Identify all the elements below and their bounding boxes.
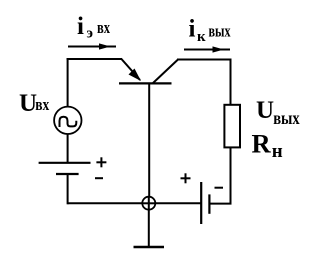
resistor Rн body bbox=[224, 105, 240, 148]
wire left vertical bbox=[67, 58, 69, 107]
svg-text:U: U bbox=[256, 97, 274, 124]
wire bottom horizontal right of node bbox=[155, 202, 201, 204]
label i_к вых bbox=[189, 15, 231, 45]
svg-text:вых: вых bbox=[273, 108, 300, 128]
svg-text:э: э bbox=[87, 26, 93, 42]
transistor VT1 collector lead bbox=[153, 60, 178, 84]
transistor VT1 emitter lead with arrow bbox=[121, 59, 141, 82]
label U вых bbox=[256, 97, 300, 128]
label i_э вх bbox=[77, 13, 110, 42]
wire node to ground bbox=[148, 210, 150, 247]
wire top-left horizontal bbox=[67, 58, 122, 60]
svg-text:к: к bbox=[197, 29, 206, 45]
svg-text:i: i bbox=[189, 15, 196, 42]
label minus GB2 bbox=[215, 187, 224, 189]
arrow output current bbox=[184, 46, 230, 52]
label U вх bbox=[19, 90, 50, 117]
battery GB2 long plate bbox=[200, 182, 202, 224]
svg-text:вых: вых bbox=[209, 21, 231, 40]
wire right vertical to resistor bbox=[230, 59, 232, 106]
label plus GB2 bbox=[181, 173, 191, 183]
label plus GB1 bbox=[96, 157, 106, 167]
wire base vertical bbox=[148, 83, 150, 196]
wire top-right horizontal bbox=[177, 59, 232, 61]
svg-text:н: н bbox=[272, 141, 283, 162]
wire AC source to battery1 bbox=[67, 134, 69, 163]
label R н bbox=[252, 129, 283, 163]
battery GB2 short plate bbox=[208, 194, 210, 213]
AC source G1 circle bbox=[54, 107, 81, 134]
battery GB1 short plate bbox=[56, 173, 79, 175]
arrow input current bbox=[68, 43, 116, 49]
AC source G1 waveform symbol bbox=[60, 117, 77, 127]
svg-text:вх: вх bbox=[35, 95, 49, 114]
node junction circle bbox=[142, 197, 155, 210]
svg-text:i: i bbox=[77, 13, 84, 40]
label minus GB1 bbox=[95, 177, 103, 179]
wire battery2 right horizontal bbox=[209, 203, 231, 205]
wire battery1 bottom vertical bbox=[67, 174, 69, 204]
wire bottom horizontal left of node bbox=[68, 202, 143, 204]
transistor VT1 base bar bbox=[119, 82, 172, 84]
ground bar bbox=[134, 246, 165, 249]
wire resistor bottom vertical bbox=[230, 147, 232, 203]
battery GB1 long plate bbox=[39, 162, 91, 164]
svg-text:вх: вх bbox=[97, 18, 110, 37]
svg-text:R: R bbox=[252, 129, 272, 159]
